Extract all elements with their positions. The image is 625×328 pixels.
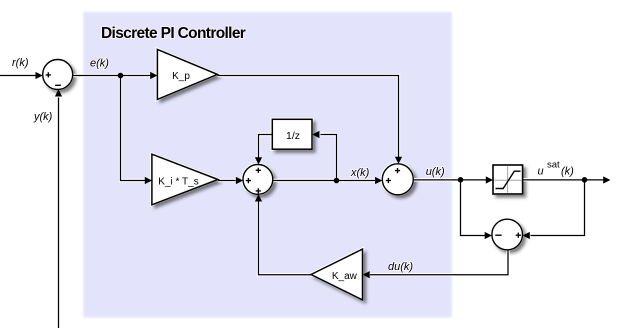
wire: u(k) branch down to sum S4 minus input: [461, 180, 486, 236]
svg-text:sat: sat: [547, 160, 560, 171]
svg-text:u: u: [538, 166, 544, 178]
wire: sum S3 output u(k) to saturation block: [413, 179, 486, 181]
svg-text:e(k): e(k): [90, 58, 109, 70]
arrowhead: K_i*T_s output into sum S2: [236, 177, 243, 184]
arrowhead: du(k) into gain K_aw: [363, 271, 370, 278]
arrowhead: x(k) into unit delay 1/z: [312, 131, 319, 138]
S1 plus sign: [46, 72, 51, 77]
S2 bottom plus sign: [256, 188, 261, 193]
unit delay 1/z body: [272, 119, 312, 149]
arrowhead: e(k) into gain K_i*T_s: [145, 177, 152, 184]
arrowhead: final output arrow: [603, 176, 610, 183]
wire: sum S4 output du(k) to gain K_aw: [370, 250, 508, 275]
wire: gain K_i*T_s output to sum S2: [218, 180, 236, 182]
wire: x(k) branch up into unit delay 1/z: [321, 135, 337, 181]
svg-text:r(k): r(k): [12, 57, 29, 69]
node: e(k) branch junction: [118, 73, 124, 79]
sum S4 (u_sat minus u) body: [492, 219, 523, 250]
wire: gain K_p output to sum S3 top: [218, 76, 399, 158]
saturation icon axes: [494, 166, 521, 193]
arrowhead: u_sat into sum S4 plus: [523, 232, 530, 239]
wire: unit delay 1/z output down into sum S2 top: [259, 135, 273, 158]
svg-text:du(k): du(k): [388, 261, 413, 273]
S3 left plus sign: [386, 178, 391, 183]
S2 left plus sign: [246, 178, 251, 183]
wire: sum S2 output x(k) to sum S3: [273, 180, 375, 182]
wire: saturation output u_sat to final output: [523, 179, 604, 181]
arrowhead: K_p output into sum S3: [395, 157, 402, 164]
svg-text:1/z: 1/z: [286, 130, 300, 142]
wire: r(k) input into sum S1: [0, 75, 36, 77]
S4 minus sign: [495, 234, 501, 236]
arrowhead: u(k) into saturation block: [486, 176, 493, 183]
svg-text:K_i * T_s: K_i * T_s: [158, 177, 198, 188]
svg-text:x(k): x(k): [350, 167, 370, 179]
wire: sum S1 output e(k) to gain K_p: [73, 75, 151, 77]
svg-text:Discrete PI Controller: Discrete PI Controller: [101, 25, 246, 42]
wire: y(k) feedback up into sum S1: [58, 98, 60, 328]
saturation icon curve: [496, 171, 521, 188]
gain K_p body: [157, 49, 217, 99]
arrowhead: x(k) into sum S3: [375, 177, 382, 184]
sum S3 (P plus I) body: [382, 164, 413, 195]
arrowhead: K_aw output into sum S2 bottom: [255, 194, 262, 201]
svg-text:y(k): y(k): [33, 111, 53, 123]
S2 top plus sign: [256, 168, 261, 173]
wire: e(k) branch down to gain K_i*T_s: [121, 76, 146, 181]
arrowhead: u(k) into sum S4 minus: [485, 232, 492, 239]
node: u(k) branch junction: [458, 177, 464, 183]
sum S2 (integrator summing) body: [243, 165, 273, 195]
S4 plus sign: [516, 233, 521, 238]
arrowhead: r(k) into sum S1: [36, 72, 43, 79]
node: x(k) branch junction: [334, 178, 340, 184]
arrowhead: e(k) into gain K_p: [150, 72, 157, 79]
wire: u_sat branch down to sum S4 plus input: [531, 180, 585, 236]
svg-text:K_aw: K_aw: [332, 271, 358, 282]
gain K_i*T_s body: [152, 154, 218, 205]
wire halo underlay: [0, 76, 604, 328]
saturation block body: [493, 165, 523, 194]
sum S1 (r minus y) body: [43, 60, 73, 90]
Discrete PI Controller subsystem area: [83, 12, 452, 318]
svg-text:u(k): u(k): [426, 166, 445, 178]
S3 top plus sign: [395, 168, 400, 173]
gain K_aw body (points left): [311, 249, 363, 300]
node: u_sat branch junction: [582, 177, 588, 183]
svg-text:K_p: K_p: [172, 71, 190, 82]
wire: gain K_aw output up into sum S2 bottom: [259, 201, 312, 275]
arrowhead: y(k) into sum S1 bottom: [55, 89, 62, 96]
arrowhead: 1/z output into sum S2 top: [255, 157, 262, 164]
block shadow and halo underlay: [43, 49, 523, 300]
svg-text:(k): (k): [561, 166, 574, 178]
S1 minus sign: [55, 84, 61, 86]
